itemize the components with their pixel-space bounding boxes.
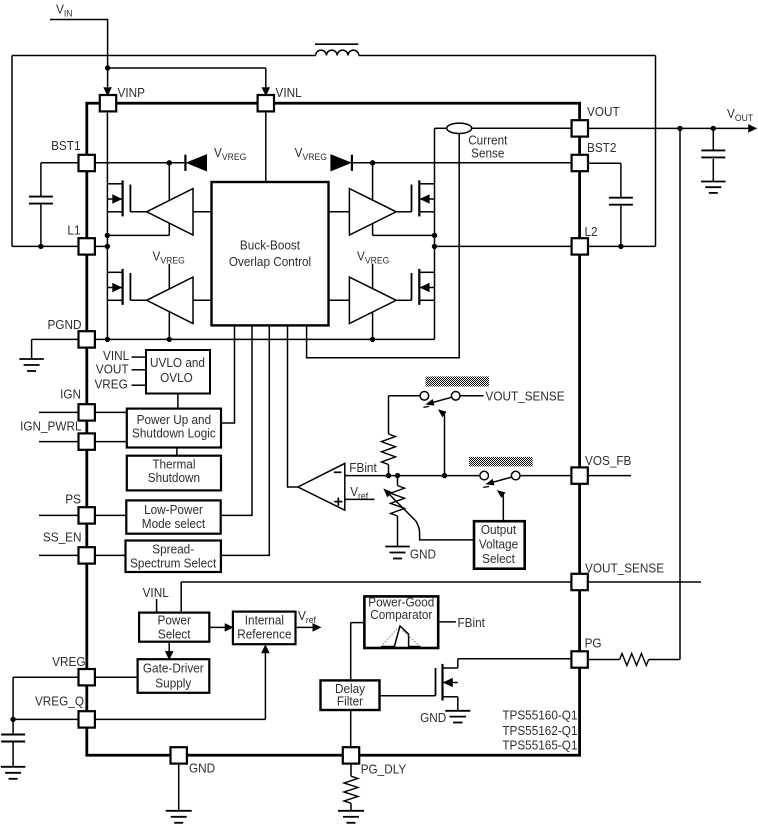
svg-text:Select: Select — [158, 627, 191, 642]
svg-text:Comparator: Comparator — [370, 607, 432, 622]
svg-text:Sense: Sense — [471, 146, 505, 161]
svg-text:Shutdown Logic: Shutdown Logic — [132, 426, 216, 441]
svg-text:UVLO and: UVLO and — [150, 356, 205, 371]
svg-text:BST1: BST1 — [51, 139, 81, 154]
svg-text:VINL: VINL — [143, 586, 169, 601]
svg-text:Gate-Driver: Gate-Driver — [143, 661, 204, 676]
svg-text:TPS55160-Q1: TPS55160-Q1 — [502, 708, 577, 723]
svg-text:Filter: Filter — [337, 694, 363, 709]
svg-text:VREG_Q: VREG_Q — [35, 694, 84, 709]
svg-text:Mode select: Mode select — [142, 517, 206, 532]
svg-text:Spread-: Spread- — [152, 542, 194, 557]
svg-text:FBint: FBint — [349, 461, 377, 476]
svg-text:OVLO: OVLO — [160, 371, 193, 386]
svg-text:VREG: VREG — [52, 655, 85, 670]
svg-text:IGN_PWRL: IGN_PWRL — [20, 419, 82, 434]
svg-text:PG: PG — [585, 636, 602, 651]
svg-text:TPS55162-Q1: TPS55162-Q1 — [502, 723, 577, 738]
svg-text:GND: GND — [189, 761, 215, 776]
svg-text:PG_DLY: PG_DLY — [361, 762, 407, 777]
svg-text:Buck-Boost: Buck-Boost — [240, 238, 301, 253]
svg-text:Select: Select — [482, 551, 515, 566]
svg-text:Power Up and: Power Up and — [137, 413, 212, 428]
svg-text:VOUT_SENSE: VOUT_SENSE — [486, 389, 565, 404]
svg-text:VINP: VINP — [118, 85, 145, 100]
svg-text:Low-Power: Low-Power — [144, 503, 203, 518]
svg-text:Shutdown: Shutdown — [148, 471, 200, 486]
svg-text:VOS_FB: VOS_FB — [585, 454, 631, 469]
svg-text:VOUT: VOUT — [96, 362, 129, 377]
svg-text:Output: Output — [481, 522, 517, 537]
svg-text:TPS55165-Q1: TPS55165-Q1 — [502, 738, 577, 753]
svg-text:Internal: Internal — [245, 613, 284, 628]
svg-text:PGND: PGND — [48, 318, 82, 333]
svg-text:VOUT: VOUT — [587, 105, 620, 120]
svg-text:SS_EN: SS_EN — [43, 530, 82, 545]
svg-text:Thermal: Thermal — [152, 457, 195, 472]
svg-text:VINL: VINL — [276, 85, 302, 100]
svg-text:Spectrum Select: Spectrum Select — [130, 556, 217, 571]
svg-text:IGN: IGN — [60, 387, 81, 402]
svg-text:BST2: BST2 — [587, 140, 617, 155]
svg-text:L2: L2 — [585, 225, 598, 240]
svg-text:FBint: FBint — [457, 616, 485, 631]
svg-text:VREG: VREG — [94, 377, 127, 392]
svg-text:Voltage: Voltage — [479, 537, 518, 552]
svg-text:GND: GND — [420, 711, 446, 726]
svg-text:VOUT_SENSE: VOUT_SENSE — [585, 561, 664, 576]
svg-text:Supply: Supply — [155, 676, 192, 691]
svg-text:Reference: Reference — [237, 627, 291, 642]
svg-text:PS: PS — [65, 492, 81, 507]
svg-text:GND: GND — [410, 547, 436, 562]
svg-text:Power: Power — [158, 613, 191, 628]
svg-text:Overlap Control: Overlap Control — [229, 255, 311, 270]
svg-text:L1: L1 — [67, 223, 80, 238]
